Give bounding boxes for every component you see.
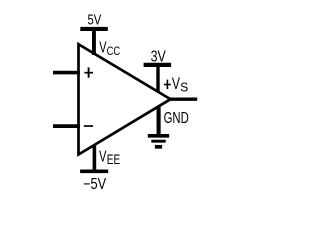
svg-text:V: V [172,75,180,93]
svg-text:5V: 5V [88,12,102,28]
wire output node [170,97,198,100]
wire noninverting input stub [53,71,80,75]
svg-text:S: S [180,80,188,94]
svg-text:−5V: −5V [83,176,107,193]
wire inverting input stub [53,124,80,128]
power supply bar 3V [144,63,172,67]
wire ground drop from op-amp bottom edge [157,107,161,135]
wire 3V supply to op-amp top edge [156,66,159,92]
svg-text:V: V [99,148,107,165]
svg-text:CC: CC [107,44,121,58]
op-amp U1 triangle [79,44,171,154]
wire VEE supply [93,145,97,171]
label +VS [164,80,171,90]
svg-text:EE: EE [107,152,120,168]
minus sign inverting input marker [84,125,93,127]
plus sign noninverting input marker [84,67,93,77]
wire VCC supply [92,29,96,55]
power supply bar 5V [80,27,108,31]
power supply bar -5V [80,170,108,174]
ground symbol [148,136,169,147]
svg-text:3V: 3V [151,48,167,65]
svg-text:GND: GND [164,110,189,127]
